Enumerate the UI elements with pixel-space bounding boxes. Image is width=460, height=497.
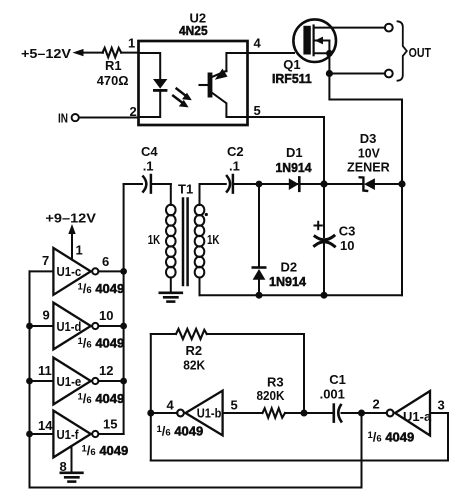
node junction U1-d output bbox=[120, 323, 127, 330]
wire U1-a pin3 feedback to U1-b output bbox=[151, 413, 448, 461]
label C1 .001 bbox=[320, 372, 346, 402]
label R3 820K bbox=[257, 375, 286, 404]
svg-text:1/6 4049: 1/6 4049 bbox=[368, 430, 415, 445]
svg-text:IN: IN bbox=[58, 110, 68, 125]
capacitor C4 bbox=[124, 175, 171, 193]
wire U2 pin5 to rectifier node bbox=[248, 117, 325, 184]
svg-text:+9–12V: +9–12V bbox=[45, 210, 96, 225]
node junction U1-b output bbox=[147, 410, 154, 417]
wire left bus from C4 to inverter outputs bbox=[123, 184, 125, 434]
svg-text:470Ω: 470Ω bbox=[97, 73, 129, 88]
diode LED inside U2 bbox=[153, 79, 167, 92]
node junction D2 top bbox=[256, 181, 263, 188]
svg-text:IRF511: IRF511 bbox=[272, 71, 312, 86]
svg-text:10: 10 bbox=[340, 238, 354, 253]
svg-text:Q1: Q1 bbox=[283, 57, 300, 72]
resistor R1 bbox=[103, 48, 122, 57]
svg-text:U1-d: U1-d bbox=[57, 319, 82, 334]
wire R2 top left segment bbox=[151, 333, 176, 335]
svg-text:10V: 10V bbox=[358, 146, 380, 161]
transistor phototransistor inside U2 bbox=[200, 53, 248, 117]
svg-text:1/6 4049: 1/6 4049 bbox=[82, 443, 129, 458]
svg-text:4: 4 bbox=[254, 36, 262, 51]
svg-text:D1: D1 bbox=[286, 145, 303, 160]
svg-text:.1: .1 bbox=[229, 159, 240, 174]
node OUT bottom terminal bbox=[385, 70, 393, 78]
node junction zener right bbox=[398, 180, 405, 187]
light arrow 1 bbox=[177, 89, 192, 101]
svg-text:1/6 4049: 1/6 4049 bbox=[78, 391, 125, 406]
wire D2 branch bbox=[258, 184, 260, 266]
svg-text:15: 15 bbox=[103, 417, 117, 432]
svg-text:T1: T1 bbox=[178, 182, 193, 197]
svg-text:1/6 4049: 1/6 4049 bbox=[78, 281, 125, 296]
svg-text:12: 12 bbox=[99, 363, 113, 378]
svg-text:4N25: 4N25 bbox=[179, 23, 208, 38]
op-amp U1-e inverter bbox=[30, 358, 124, 405]
wire R2 feedback loop left bbox=[150, 334, 152, 461]
wire T1 secondary to C2 bbox=[200, 183, 226, 185]
svg-text:10: 10 bbox=[99, 308, 113, 323]
svg-text:820K: 820K bbox=[257, 388, 286, 403]
svg-text:U1-e: U1-e bbox=[57, 374, 82, 389]
light arrow 2 bbox=[173, 96, 188, 108]
diode D2 1N914 bbox=[253, 268, 266, 296]
op-amp U1-f inverter bbox=[30, 411, 124, 458]
svg-text:U1-c: U1-c bbox=[57, 264, 82, 279]
value label R1 470ohm bbox=[97, 58, 129, 88]
wire U2 pin4 to Q1 gate bbox=[248, 52, 295, 54]
svg-text:C3: C3 bbox=[339, 224, 356, 239]
svg-text:2: 2 bbox=[373, 397, 380, 412]
svg-text:1: 1 bbox=[76, 243, 83, 258]
resistor R3 bbox=[263, 408, 286, 417]
op-amp U1-c inverter bbox=[30, 248, 124, 295]
svg-text:5: 5 bbox=[254, 103, 261, 118]
op-amp U1-a inverter bbox=[387, 391, 430, 436]
label C2 .1 bbox=[227, 144, 244, 174]
node junction U1-a output bbox=[358, 410, 365, 417]
svg-text:.1: .1 bbox=[143, 159, 154, 174]
svg-text:OUT: OUT bbox=[409, 45, 431, 60]
node junction U1-e output bbox=[120, 378, 127, 385]
svg-text:1/6 4049: 1/6 4049 bbox=[157, 424, 204, 439]
svg-text:R2: R2 bbox=[186, 343, 203, 358]
diode D1 1N914 bbox=[289, 177, 300, 190]
label R2 82K bbox=[183, 343, 205, 373]
wire oscillator output to inverter inputs bbox=[30, 487, 362, 489]
svg-text:9: 9 bbox=[43, 308, 50, 323]
node junction U1-f input bbox=[26, 431, 33, 438]
wire U2 internal anode bbox=[139, 53, 161, 79]
svg-text:2: 2 bbox=[130, 104, 137, 119]
capacitor C3 electrolytic bbox=[315, 236, 335, 247]
wire Q1 drain to OUT top bbox=[314, 27, 385, 29]
svg-text:U1-a: U1-a bbox=[403, 409, 432, 424]
node junction C3 bottom bbox=[321, 292, 328, 299]
wire U1-f pin 8 to ground bbox=[71, 446, 73, 472]
node junction D2 bottom bbox=[256, 292, 263, 299]
node junction C3 top bbox=[320, 180, 327, 187]
node junction U1-e input bbox=[26, 378, 33, 385]
svg-text:82K: 82K bbox=[183, 358, 205, 373]
svg-text:D3: D3 bbox=[360, 131, 377, 146]
wire source junction to OUT bottom bbox=[329, 73, 385, 75]
transistor Q1 IRF511 bbox=[293, 19, 336, 70]
diode D3 zener bbox=[360, 177, 402, 191]
wire U1-b pin5 to R3 bbox=[223, 412, 263, 414]
svg-text:ZENER: ZENER bbox=[347, 160, 390, 175]
wire R3 to C1 bbox=[285, 412, 333, 414]
svg-text:D2: D2 bbox=[281, 260, 298, 275]
svg-text:1/6 4049: 1/6 4049 bbox=[78, 336, 125, 351]
svg-text:6: 6 bbox=[102, 254, 109, 269]
node junction R2 right bbox=[301, 410, 308, 417]
svg-text:14: 14 bbox=[38, 418, 53, 433]
wire U1-b output bbox=[151, 412, 178, 414]
label C4 .1 bbox=[141, 144, 158, 174]
wire right rail down bbox=[401, 184, 403, 295]
svg-text:1: 1 bbox=[128, 36, 135, 51]
wire input bus inverters bbox=[29, 271, 31, 487]
ground T1 bbox=[160, 293, 182, 302]
svg-text:U1-b: U1-b bbox=[197, 406, 222, 421]
capacitor C1 bbox=[334, 405, 341, 422]
wire supply arrow to R1 bbox=[81, 52, 103, 54]
svg-text:1N914: 1N914 bbox=[269, 274, 307, 289]
resistor R2 bbox=[176, 329, 207, 339]
label C3 10 bbox=[339, 224, 356, 254]
svg-text:1K: 1K bbox=[207, 232, 220, 247]
polarity plus C3 bbox=[315, 222, 322, 229]
node IN terminal bbox=[58, 110, 79, 125]
node junction U1-d input bbox=[26, 323, 33, 330]
svg-text:5: 5 bbox=[231, 398, 238, 413]
svg-text:4: 4 bbox=[167, 398, 175, 413]
wire R1 to U2 pin 1 bbox=[121, 52, 138, 54]
svg-text:.001: .001 bbox=[320, 387, 345, 402]
op-amp U1-b inverter bbox=[177, 391, 223, 436]
wire R2 top right segment bbox=[207, 334, 304, 413]
ground U1-f bbox=[61, 473, 83, 482]
wire source to right rail bbox=[329, 74, 402, 185]
node OUT top terminal bbox=[385, 24, 393, 32]
op-amp U1-d inverter bbox=[30, 303, 124, 350]
svg-text:11: 11 bbox=[38, 363, 52, 378]
svg-text:+5–12V: +5–12V bbox=[21, 46, 71, 61]
node source junction bbox=[326, 70, 333, 77]
node junction U1-c output bbox=[120, 268, 127, 275]
wire oscillator output down bbox=[361, 413, 363, 488]
wire main rectifier row bbox=[234, 183, 363, 185]
wire pin1 supply arrow U1-c bbox=[68, 224, 75, 260]
label D3 10V ZENER bbox=[347, 131, 390, 175]
svg-text:C2: C2 bbox=[227, 144, 244, 159]
svg-text:1N914: 1N914 bbox=[276, 160, 313, 175]
svg-text:1K: 1K bbox=[148, 232, 161, 247]
transformer T1 bbox=[166, 184, 208, 295]
svg-text:R1: R1 bbox=[105, 58, 122, 73]
brace OUT bbox=[398, 21, 407, 80]
wire U2 internal cathode bbox=[139, 92, 161, 117]
wire C3 branch top bbox=[323, 184, 325, 237]
svg-text:C1: C1 bbox=[329, 372, 346, 387]
svg-text:3: 3 bbox=[438, 398, 445, 413]
wire IN to U2 pin 2 bbox=[79, 117, 139, 119]
svg-text:U1-f: U1-f bbox=[57, 427, 80, 442]
svg-text:C4: C4 bbox=[141, 144, 158, 159]
optocoupler U2 box bbox=[139, 41, 248, 125]
wire C1 to U1-a bbox=[342, 412, 387, 414]
capacitor C2 bbox=[227, 175, 233, 193]
wire bottom rectifier rail bbox=[200, 294, 403, 296]
wire C3 branch bottom bbox=[323, 243, 325, 296]
svg-text:7: 7 bbox=[42, 253, 49, 268]
